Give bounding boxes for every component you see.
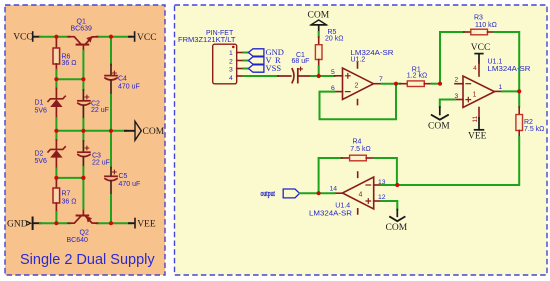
svg-text:1: 1 [499,84,503,91]
wire pin4 to C1 [244,75,278,77]
svg-text:1.2 kΩ: 1.2 kΩ [407,73,427,80]
resistor R7 [55,178,57,188]
svg-text:1: 1 [473,92,477,99]
capacitor C4 [110,37,112,65]
connector J PIN-FET box [213,44,237,84]
svg-text:COM: COM [428,121,450,131]
port VEE below U1.1 [478,108,480,119]
svg-text:U1.1: U1.1 [488,58,503,65]
svg-text:VCC: VCC [137,33,157,43]
svg-text:5V6: 5V6 [35,158,48,165]
svg-text:C5: C5 [119,173,128,180]
U1.4 output pin 14 [335,192,343,194]
svg-text:VEE: VEE [468,131,487,141]
resistor R6 [55,38,57,48]
svg-text:3: 3 [455,93,459,100]
harness entry GND [248,49,264,56]
pin 2 [237,60,244,62]
svg-text:36 Ω: 36 Ω [62,198,77,205]
wire R4 feedback [319,158,342,193]
transistor Q2 BC640 [68,216,98,224]
wire node row y79 [56,78,83,80]
svg-text:COM: COM [308,11,330,21]
svg-text:Single 2 Dual Supply: Single 2 Dual Supply [20,252,155,268]
U1.2 output pin 7 [374,83,382,85]
harness entry VSS [248,65,264,72]
U1.1 pin 3 wire [455,99,463,101]
svg-text:FRM3Z121KT/LT: FRM3Z121KT/LT [178,37,236,44]
svg-text:2: 2 [229,58,233,65]
svg-text:2: 2 [455,77,459,84]
pin 4 [237,75,244,77]
U1.4 pin 13 wire [374,184,382,186]
svg-text:7.5 kΩ: 7.5 kΩ [524,126,544,133]
svg-text:14: 14 [330,186,338,193]
pin 1 [237,52,244,54]
wire lower mid row [56,177,83,179]
pin 3 [237,68,244,70]
resistor R1 [396,83,400,85]
svg-text:U1.2: U1.2 [351,57,366,64]
wire output port to U1.4 [300,192,319,194]
svg-text:12: 12 [378,194,386,201]
svg-text:C4: C4 [118,76,127,83]
svg-text:470 uF: 470 uF [118,84,140,91]
svg-text:VEE: VEE [137,220,156,230]
label U1.2 pin 5 wire [319,75,335,77]
svg-text:4: 4 [229,75,233,82]
diode D2 5V6 zener [55,131,57,140]
node junction dots right panel [317,74,522,195]
svg-text:BC639: BC639 [71,26,93,33]
svg-text:68 uF: 68 uF [292,58,310,65]
Q1 emitter arrow [86,36,92,43]
op-amp U1.1 [463,76,495,108]
svg-text:7.5 kΩ: 7.5 kΩ [350,146,370,153]
harness entry V R [248,57,264,64]
capacitor C3 [82,131,84,141]
svg-text:5: 5 [331,69,335,76]
svg-text:COM: COM [386,223,408,233]
svg-text:5V6: 5V6 [35,108,48,115]
svg-text:Q2: Q2 [80,229,89,236]
right panel background [175,5,548,275]
svg-text:output: output [261,188,276,198]
op-amp U1.2 [343,68,374,100]
Q1 base lead [82,46,84,52]
svg-text:D2: D2 [35,150,44,157]
svg-text:36 Ω: 36 Ω [62,60,77,67]
U1.2 pin 6 wire + feedback loop [335,91,343,93]
Q2 emitter arrow [86,216,92,223]
port GND [7,218,41,230]
svg-text:D1: D1 [35,100,44,107]
svg-text:LM324A-SR: LM324A-SR [309,211,352,218]
U1.1 output pin 1 [495,90,503,92]
diode D1 5V6 zener [55,79,57,88]
wire U1.1 feedback up [440,32,464,84]
svg-text:R7: R7 [62,191,71,198]
wire mid rail [56,130,126,132]
svg-text:22 uF: 22 uF [92,159,110,166]
svg-text:GND: GND [7,220,28,230]
port COM below U1.4 pin12 [396,210,398,217]
Q2 base lead [82,209,84,215]
node Q2 base junction [81,176,85,180]
U1.4 pin 12 wire [374,200,382,202]
node junction dots left panel [54,35,113,226]
svg-text:BC640: BC640 [67,237,89,244]
op-amp U1.4 (mirrored) [342,177,373,209]
svg-text:3: 3 [229,67,233,74]
svg-text:R4: R4 [353,139,362,146]
wire top rail right [97,36,131,38]
capacitor C5 [110,131,112,168]
port COM below U1.1 pin3 [439,107,441,115]
port VEE [135,219,156,230]
resistor R2 [518,91,520,107]
svg-text:VCC: VCC [471,43,491,53]
resistor R5 [318,32,320,37]
svg-text:Q1: Q1 [77,18,86,25]
U1.1 pin 2 wire [455,83,463,85]
svg-text:6: 6 [331,85,335,92]
svg-text:22 uF: 22 uF [91,107,109,114]
svg-text:20 kΩ: 20 kΩ [325,36,343,43]
port VCC left [13,32,39,42]
wire top rail left [40,36,70,38]
svg-text:VCC: VCC [13,32,33,42]
svg-text:R3: R3 [474,14,483,21]
wire bottom rail right [97,222,131,224]
svg-text:1: 1 [229,50,233,57]
svg-text:4: 4 [359,192,363,199]
svg-text:LM324A-SR: LM324A-SR [488,66,531,73]
resistor R3 [464,31,471,33]
port VCC right [135,32,157,43]
svg-text:COM: COM [143,127,165,137]
capacitor C2 [82,79,84,90]
resistor R4 [342,157,350,159]
svg-text:VSS: VSS [266,63,282,73]
svg-text:7: 7 [379,76,383,83]
svg-text:4: 4 [473,65,477,72]
svg-text:U1.4: U1.4 [335,203,350,210]
svg-text:11: 11 [472,115,479,122]
wire bottom rail left [40,222,70,224]
svg-text:470 uF: 470 uF [119,181,141,188]
transistor Q1 BC639 [68,37,98,45]
svg-text:2: 2 [355,83,359,90]
svg-text:110 kΩ: 110 kΩ [475,22,497,29]
capacitor C1 [278,75,291,77]
port COM left panel [135,121,165,140]
svg-text:13: 13 [378,179,386,186]
